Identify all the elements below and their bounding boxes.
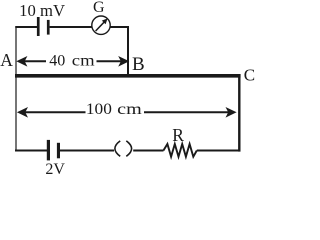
svg-text:G: G [93, 0, 105, 16]
svg-text:B: B [132, 54, 145, 75]
resistor R [163, 144, 196, 157]
wire bottom branch left segment [15, 150, 47, 152]
svg-text:R: R [172, 125, 184, 145]
svg-text:10 mV: 10 mV [19, 1, 65, 20]
wire left vertical (A to bottom branch) [15, 26, 17, 151]
svg-text:2V: 2V [45, 161, 65, 178]
wire galvanometer to corner [110, 26, 129, 28]
wire battery B1 to galvanometer [50, 26, 93, 28]
battery B1 cell 10 mV [37, 17, 50, 36]
galvanometer G [92, 16, 110, 34]
wire top branch left segment [15, 26, 37, 28]
dimension arrow 40 cm [16, 56, 129, 67]
wire battery B2 to key [60, 150, 114, 152]
svg-text:cm: cm [72, 53, 95, 70]
wire right vertical (C to bottom branch) [238, 74, 240, 151]
battery B2 cell 2V [47, 140, 60, 161]
svg-text:100: 100 [86, 101, 112, 118]
wire key to resistor [133, 150, 163, 152]
wire B vertical drop [127, 26, 129, 75]
wire resistor to right corner [197, 150, 241, 152]
dimension arrow 100 cm [17, 107, 237, 118]
key K (open plug key) [115, 141, 132, 156]
svg-text:A: A [0, 50, 13, 70]
potentiometer wire A to C (thick) [15, 74, 241, 78]
svg-text:C: C [244, 65, 255, 84]
svg-text:cm: cm [117, 101, 142, 118]
svg-text:40: 40 [49, 53, 65, 70]
